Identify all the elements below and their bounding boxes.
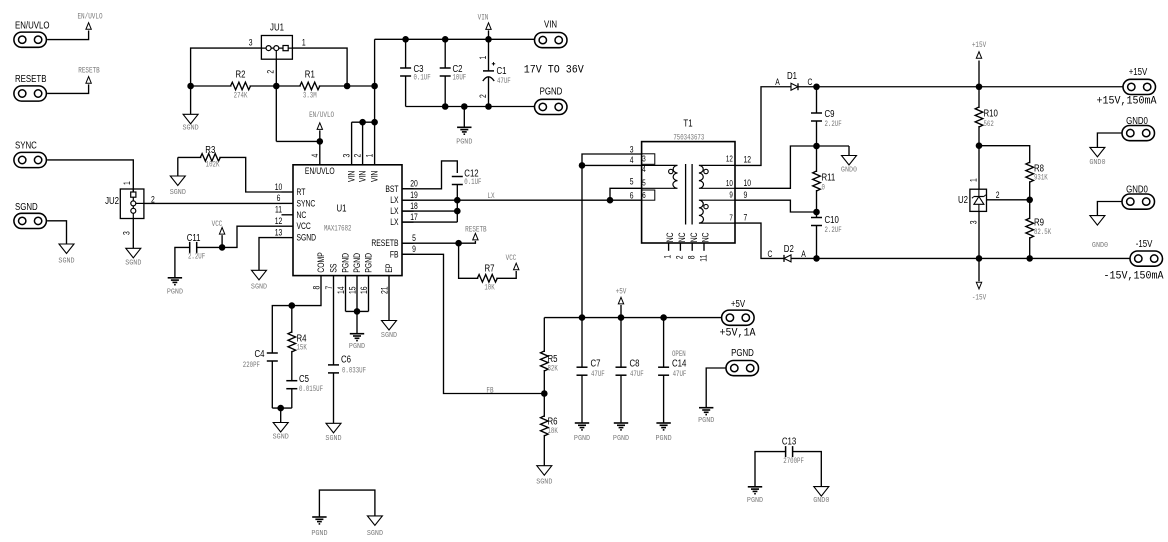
wire — [735, 87, 791, 166]
net arrow VCC — [212, 220, 225, 247]
svg-text:3: 3 — [642, 155, 645, 164]
net label LX — [487, 192, 495, 201]
wire — [219, 157, 281, 192]
resistor R11 — [813, 146, 836, 212]
connector +15V — [1123, 66, 1156, 95]
wire — [735, 146, 817, 188]
svg-text:5: 5 — [412, 233, 416, 243]
resistor R6 — [541, 394, 559, 466]
wire — [1097, 133, 1122, 147]
svg-text:3: 3 — [121, 231, 131, 235]
svg-text:U2: U2 — [958, 194, 968, 205]
ground SGND — [251, 270, 267, 291]
ground GND0 — [841, 146, 857, 174]
U1 pin numbers — [275, 153, 418, 294]
svg-text:10: 10 — [275, 182, 283, 192]
svg-text:PGND: PGND — [747, 497, 763, 505]
wire — [319, 490, 375, 517]
junction — [402, 36, 409, 43]
svg-text:C11: C11 — [187, 232, 201, 243]
junction — [976, 142, 983, 149]
junction — [660, 314, 667, 321]
wire — [132, 219, 134, 249]
svg-text:PGND: PGND — [364, 253, 374, 273]
junction — [289, 302, 296, 309]
shunt regulator U2 — [958, 189, 987, 211]
resistor R3 — [178, 144, 221, 170]
wire — [978, 146, 980, 190]
diode D1 — [775, 70, 812, 90]
svg-text:R6: R6 — [548, 416, 558, 427]
pin 3 label — [249, 37, 253, 47]
svg-text:10K: 10K — [484, 284, 495, 293]
svg-text:18: 18 — [410, 201, 418, 211]
wire — [47, 31, 89, 40]
svg-text:SGND: SGND — [125, 259, 141, 267]
ground SGND — [325, 423, 341, 443]
T1 secondary winding 12-10 — [699, 165, 735, 188]
svg-text:PGND: PGND — [613, 435, 629, 443]
svg-text:BST: BST — [385, 184, 398, 194]
wire +15V rail — [798, 86, 1123, 88]
svg-text:2: 2 — [675, 255, 685, 259]
label +5V output — [720, 327, 757, 340]
connector GND0 lower — [1122, 183, 1155, 209]
junction — [813, 255, 820, 262]
svg-text:9: 9 — [744, 190, 748, 200]
ground GND0 — [1090, 216, 1108, 250]
junction — [1026, 197, 1033, 204]
svg-text:PGND: PGND — [341, 253, 351, 273]
svg-text:220PF: 220PF — [243, 361, 260, 370]
junction — [813, 209, 820, 216]
capacitor C6 — [328, 354, 366, 424]
wire — [402, 221, 457, 223]
svg-text:750343673: 750343673 — [673, 134, 704, 143]
junction — [442, 103, 449, 110]
svg-text:3: 3 — [968, 220, 978, 224]
svg-text:FB: FB — [486, 387, 494, 396]
svg-text:+5V: +5V — [616, 288, 627, 297]
svg-text:LX: LX — [390, 195, 399, 205]
svg-text:18K: 18K — [548, 427, 559, 436]
ground PGND — [747, 487, 763, 505]
svg-text:SGND: SGND — [183, 124, 199, 132]
svg-text:6: 6 — [630, 190, 634, 200]
svg-text:9: 9 — [729, 191, 732, 200]
junction — [485, 36, 492, 43]
svg-text:R8: R8 — [1034, 162, 1044, 173]
junction — [219, 244, 226, 251]
svg-text:2.2UF: 2.2UF — [825, 226, 842, 235]
svg-text:C9: C9 — [825, 108, 835, 119]
net arrow +15V — [972, 41, 987, 87]
diode D2 — [768, 243, 807, 262]
T1 pin 6 notch — [642, 190, 655, 200]
svg-text:-15V: -15V — [972, 294, 987, 303]
svg-text:R9: R9 — [1034, 217, 1044, 228]
wire — [362, 122, 364, 165]
U1 pin stubs — [282, 189, 414, 255]
svg-text:LX: LX — [390, 217, 399, 227]
wire — [276, 140, 320, 142]
resistor R7 — [477, 263, 497, 293]
svg-text:C4: C4 — [254, 348, 264, 359]
wire — [817, 145, 850, 147]
svg-text:R11: R11 — [822, 171, 836, 182]
svg-text:5: 5 — [642, 179, 645, 188]
junction — [618, 314, 625, 321]
ground PGND — [311, 517, 327, 538]
svg-text:SGND: SGND — [297, 233, 317, 243]
svg-text:C5: C5 — [299, 373, 309, 384]
svg-text:JU1: JU1 — [270, 22, 284, 33]
ground SGND — [125, 248, 141, 267]
svg-text:13: 13 — [275, 227, 283, 237]
wire — [319, 85, 375, 87]
svg-text:C14: C14 — [672, 358, 686, 369]
wire — [356, 276, 358, 334]
connector GND0 upper — [1122, 115, 1155, 141]
svg-text:SGND: SGND — [273, 433, 289, 441]
T1 outer pin numbers — [630, 145, 752, 223]
label -15V output — [1104, 270, 1165, 283]
wire — [402, 210, 457, 212]
capacitor C2 — [440, 39, 467, 106]
svg-text:PGND: PGND — [540, 86, 563, 97]
ground SGND — [367, 516, 383, 538]
wire — [459, 243, 479, 278]
svg-text:16: 16 — [359, 286, 369, 294]
label input range — [524, 64, 585, 77]
net arrow VIN — [478, 14, 492, 40]
capacitor C7 — [577, 318, 605, 423]
net arrow EN/UVLO — [77, 13, 102, 29]
resistor R1 — [300, 69, 320, 101]
svg-text:2: 2 — [353, 153, 363, 157]
resistor R8 — [1026, 162, 1048, 200]
svg-text:17V TO 36V: 17V TO 36V — [524, 64, 585, 77]
svg-text:PGND: PGND — [349, 343, 365, 351]
svg-text:0.1UF: 0.1UF — [414, 74, 431, 83]
svg-text:2: 2 — [996, 190, 1000, 200]
svg-text:RESETB: RESETB — [78, 67, 100, 76]
resistor R5 — [541, 318, 559, 394]
svg-text:2700PF: 2700PF — [783, 457, 804, 466]
svg-text:PGND: PGND — [574, 435, 590, 443]
op-amp U1 — [293, 165, 402, 276]
svg-text:FB: FB — [390, 249, 399, 259]
connector SGND — [14, 201, 47, 228]
wire — [319, 141, 321, 164]
svg-text:GND0: GND0 — [1092, 242, 1108, 250]
ground SGND — [381, 321, 397, 341]
svg-text:10: 10 — [726, 179, 733, 188]
wire — [175, 247, 190, 277]
svg-text:+5V,1A: +5V,1A — [720, 327, 757, 340]
svg-text:C: C — [808, 77, 813, 87]
svg-text:82.5K: 82.5K — [1034, 228, 1052, 237]
svg-text:RT: RT — [297, 187, 306, 197]
svg-text:NC: NC — [677, 232, 687, 242]
svg-text:LX: LX — [487, 192, 495, 201]
svg-text:COMP: COMP — [316, 252, 326, 272]
svg-text:7: 7 — [744, 213, 748, 223]
svg-text:EP: EP — [384, 264, 394, 273]
wire — [333, 276, 335, 365]
svg-text:274K: 274K — [234, 92, 248, 101]
wire — [250, 85, 301, 87]
junction — [371, 119, 378, 126]
svg-text:EN/UVLO: EN/UVLO — [305, 166, 335, 176]
svg-text:3: 3 — [342, 153, 352, 157]
wire — [978, 211, 980, 258]
svg-text:SGND: SGND — [536, 478, 552, 486]
connector VIN — [535, 19, 568, 48]
svg-text:1: 1 — [122, 181, 132, 185]
svg-text:GND0: GND0 — [813, 497, 829, 505]
wire — [610, 188, 642, 200]
svg-text:SS: SS — [329, 263, 339, 273]
svg-text:C1: C1 — [497, 65, 507, 76]
junction — [813, 83, 820, 90]
junction — [976, 83, 983, 90]
svg-text:+15V: +15V — [1129, 66, 1148, 77]
jumper JU2 — [105, 189, 144, 219]
svg-text:R2: R2 — [235, 69, 245, 80]
junction — [273, 83, 280, 90]
svg-text:9: 9 — [412, 244, 416, 254]
junction — [442, 36, 449, 43]
svg-text:RESETB: RESETB — [465, 226, 487, 235]
wire FB — [402, 254, 544, 393]
svg-text:6: 6 — [277, 193, 281, 203]
wire — [388, 276, 390, 322]
svg-text:VIN: VIN — [370, 171, 380, 182]
junction — [1026, 255, 1033, 262]
T1 inner pin numbers — [642, 155, 733, 223]
connector +5V — [722, 298, 755, 325]
ground PGND — [167, 278, 183, 297]
svg-text:C12: C12 — [464, 168, 478, 179]
svg-text:SYNC: SYNC — [297, 198, 316, 208]
wire — [735, 200, 817, 212]
capacitor C8 — [616, 318, 644, 423]
resistor R4 — [288, 306, 307, 382]
resistor R9 — [1026, 200, 1052, 259]
svg-text:D1: D1 — [787, 70, 797, 81]
svg-text:VCC: VCC — [506, 254, 517, 263]
svg-text:PGND: PGND — [731, 347, 754, 358]
svg-text:PGND: PGND — [311, 530, 327, 538]
svg-text:VIN: VIN — [347, 171, 357, 182]
junction — [485, 103, 492, 110]
svg-text:RESETB: RESETB — [15, 73, 46, 84]
ground SGND — [536, 466, 552, 487]
ground GND0 — [813, 487, 829, 506]
svg-text:0.1UF: 0.1UF — [464, 178, 481, 187]
svg-text:102K: 102K — [206, 161, 220, 170]
svg-text:47UF: 47UF — [673, 370, 687, 379]
capacitor C1 — [478, 39, 511, 106]
svg-text:MAX17682: MAX17682 — [324, 225, 351, 234]
svg-text:NC: NC — [665, 232, 675, 242]
wire — [196, 226, 281, 247]
capacitor C4 — [243, 348, 278, 408]
svg-text:RESETB: RESETB — [371, 238, 398, 248]
wire — [280, 408, 282, 422]
junction — [541, 390, 548, 397]
svg-text:C8: C8 — [630, 358, 640, 369]
wire +5V rail — [544, 317, 721, 319]
resistor R2 — [231, 69, 251, 101]
svg-text:C3: C3 — [414, 63, 424, 74]
capacitor C10 — [811, 212, 842, 258]
svg-text:0: 0 — [822, 184, 825, 193]
ground PGND — [613, 423, 629, 443]
T1 NC pins — [663, 232, 711, 261]
svg-text:R10: R10 — [984, 108, 998, 119]
svg-text:1: 1 — [968, 178, 978, 182]
wire — [345, 276, 347, 312]
svg-text:NC: NC — [297, 210, 307, 220]
svg-text:5: 5 — [630, 176, 634, 186]
svg-text:-15V,150mA: -15V,150mA — [1104, 270, 1165, 283]
svg-text:SGND: SGND — [381, 332, 397, 340]
svg-text:1: 1 — [663, 254, 673, 258]
wire — [987, 199, 1030, 201]
net arrow RESETB — [459, 226, 488, 244]
wire — [792, 452, 821, 487]
T1 secondary winding 9-7 — [699, 200, 735, 223]
T1 pin 3 notch — [642, 154, 655, 165]
svg-text:EN/UVLO: EN/UVLO — [15, 19, 50, 30]
svg-text:R5: R5 — [548, 353, 558, 364]
wire — [47, 221, 66, 244]
wire — [735, 223, 784, 258]
wire — [272, 407, 292, 409]
wire — [582, 164, 642, 166]
svg-text:GND0: GND0 — [1126, 115, 1148, 126]
svg-text:47UF: 47UF — [591, 370, 605, 379]
wire — [352, 121, 375, 123]
svg-text:VIN: VIN — [544, 19, 557, 30]
svg-text:SGND: SGND — [325, 435, 341, 443]
junction — [359, 119, 366, 126]
svg-text:R4: R4 — [297, 332, 307, 343]
svg-text:3: 3 — [630, 145, 634, 155]
svg-text:14: 14 — [336, 286, 346, 294]
svg-text:1: 1 — [302, 37, 306, 47]
svg-text:R3: R3 — [205, 144, 215, 155]
ground PGND — [656, 423, 672, 443]
svg-text:C: C — [768, 249, 773, 259]
svg-text:15K: 15K — [297, 344, 308, 353]
ground SGND — [183, 114, 199, 132]
junction — [461, 103, 468, 110]
svg-text:12: 12 — [744, 154, 752, 164]
svg-text:GND0: GND0 — [841, 166, 857, 174]
svg-text:SGND: SGND — [251, 283, 267, 291]
wire — [275, 59, 277, 141]
wire — [144, 202, 282, 204]
wire — [272, 276, 321, 354]
junction — [455, 240, 462, 247]
pin 1 label — [302, 37, 306, 47]
svg-text:19: 19 — [410, 190, 418, 200]
capacitor C11 — [187, 232, 205, 262]
wire — [496, 271, 516, 278]
wire — [191, 48, 262, 86]
connector EN/UVLO — [14, 19, 50, 47]
wire — [346, 310, 369, 312]
svg-text:SYNC: SYNC — [15, 139, 37, 150]
T1 core — [686, 164, 693, 225]
net arrow VCC — [506, 254, 519, 270]
svg-text:SGND: SGND — [58, 257, 74, 265]
svg-text:PGND: PGND — [167, 288, 183, 296]
svg-text:SGND: SGND — [170, 189, 186, 197]
svg-text:R1: R1 — [305, 69, 315, 80]
svg-text:EN/UVLO: EN/UVLO — [77, 13, 102, 22]
svg-text:PGND: PGND — [656, 435, 672, 443]
svg-text:NC: NC — [689, 232, 699, 242]
junction — [579, 162, 586, 169]
svg-text:3: 3 — [249, 37, 253, 47]
wire — [402, 161, 457, 189]
wire — [177, 157, 179, 176]
svg-text:47UF: 47UF — [630, 370, 644, 379]
capacitor C13 — [782, 436, 804, 467]
svg-text:JU2: JU2 — [105, 195, 119, 206]
net arrow RESETB — [78, 67, 100, 83]
wire -15V rail — [791, 257, 1130, 259]
svg-text:GND0: GND0 — [1126, 183, 1148, 194]
svg-text:VIN: VIN — [358, 171, 368, 182]
svg-text:0.015UF: 0.015UF — [299, 385, 323, 394]
wire — [581, 165, 583, 317]
wire — [406, 106, 535, 108]
svg-text:PGND: PGND — [456, 138, 472, 146]
svg-text:+15V,150mA: +15V,150mA — [1097, 95, 1158, 108]
capacitor C9 — [811, 87, 842, 146]
net arrow -15V — [972, 258, 987, 303]
wire LX — [402, 199, 642, 201]
capacitor C14 — [658, 318, 686, 423]
ground SGND — [58, 244, 74, 265]
T1 primary winding — [642, 165, 678, 188]
junction — [277, 405, 284, 412]
svg-text:11: 11 — [699, 254, 709, 261]
svg-text:A: A — [801, 249, 806, 259]
svg-text:2: 2 — [266, 69, 276, 73]
capacitor C5 — [286, 373, 323, 408]
connector SYNC — [14, 139, 47, 167]
svg-text:C6: C6 — [341, 354, 351, 365]
junction — [579, 314, 586, 321]
wire — [190, 86, 192, 114]
junction — [454, 208, 461, 215]
svg-text:C10: C10 — [825, 214, 839, 225]
ground PGND — [698, 408, 714, 425]
resistor R10 — [975, 87, 998, 146]
svg-text:47UF: 47UF — [497, 77, 511, 86]
svg-text:7: 7 — [729, 214, 732, 223]
wire — [582, 154, 642, 165]
pin 2 label — [266, 69, 276, 73]
wire — [292, 48, 347, 86]
svg-text:U1: U1 — [336, 203, 346, 214]
